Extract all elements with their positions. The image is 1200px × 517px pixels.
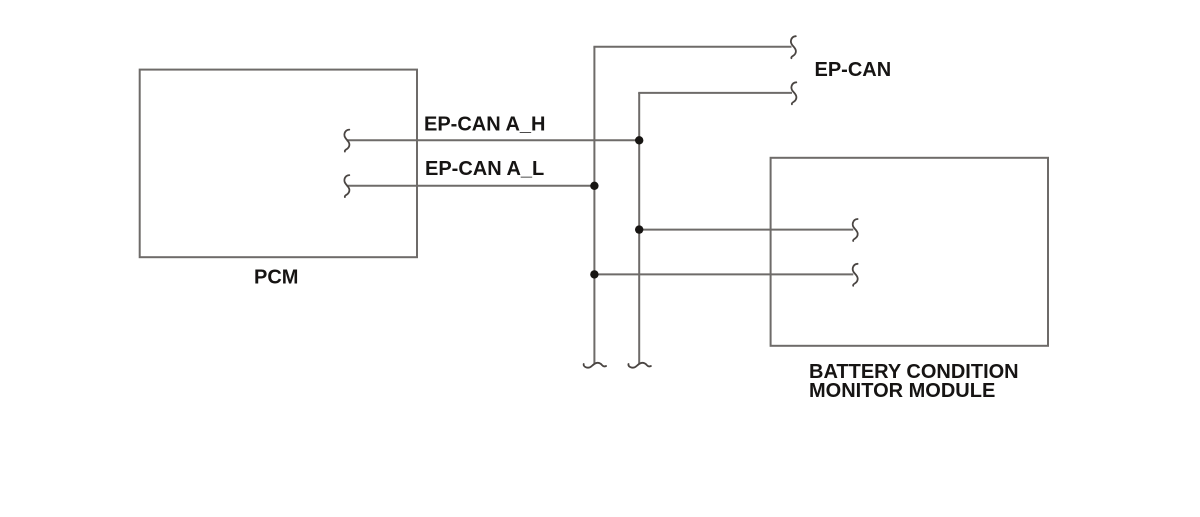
junction dot: upper battery branch on bus line 2 xyxy=(635,225,643,233)
wire: EP-CAN A_H from PCM to bus line 2 xyxy=(347,139,640,141)
wire: top EP-CAN branch 1 (horizontal) xyxy=(593,46,791,48)
wire: EP-CAN A_L from PCM to bus line 1 xyxy=(347,185,595,187)
break symbol at EP-CAN branch 1 end xyxy=(791,36,796,58)
break symbol at battery end of upper branch xyxy=(853,219,858,241)
svg-text:EP-CAN A_L: EP-CAN A_L xyxy=(425,158,544,180)
svg-text:EP-CAN: EP-CAN xyxy=(815,59,892,81)
break symbol at EP-CAN branch 2 end xyxy=(791,82,796,104)
break symbol at battery end of lower branch xyxy=(853,264,858,286)
BATTERY CONDITION MONITOR MODULE box xyxy=(771,158,1048,346)
svg-text:MONITOR MODULE: MONITOR MODULE xyxy=(809,380,995,402)
wire: upper branch from bus line 2 to battery module xyxy=(639,229,853,231)
wire: lower branch from bus line 1 to battery module xyxy=(594,273,853,275)
break symbol at bottom of bus line 1 xyxy=(584,363,606,368)
wire: EP-CAN bus vertical line 1 xyxy=(593,47,595,365)
wire: EP-CAN bus vertical line 2 xyxy=(638,93,640,365)
PCM module box xyxy=(140,70,417,258)
svg-text:PCM: PCM xyxy=(254,266,298,288)
break symbol at PCM end of EP-CAN A_H xyxy=(344,130,349,152)
break symbol at bottom of bus line 2 xyxy=(628,363,650,368)
junction dot: A_L on bus line 1 xyxy=(590,182,598,190)
junction dot: A_H on bus line 2 xyxy=(635,136,643,144)
junction dot: lower battery branch on bus line 1 xyxy=(590,270,598,278)
break symbol at PCM end of EP-CAN A_L xyxy=(344,175,349,197)
wire: top EP-CAN branch 2 (horizontal) xyxy=(638,92,792,94)
svg-text:EP-CAN A_H: EP-CAN A_H xyxy=(424,113,546,135)
